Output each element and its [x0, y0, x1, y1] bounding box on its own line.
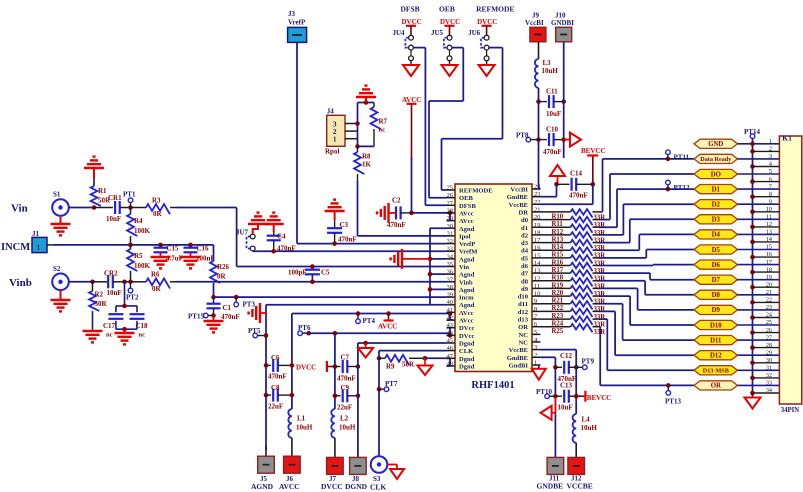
net flag D10	[694, 320, 738, 329]
junction R5/PT2	[128, 280, 133, 285]
svg-text:VrefP: VrefP	[288, 19, 306, 27]
junction C11 right	[561, 99, 566, 104]
resistor R23 33R	[541, 309, 616, 321]
svg-text:C3: C3	[340, 221, 349, 229]
svg-text:VrefP: VrefP	[459, 241, 475, 248]
junction C10 right	[561, 137, 566, 142]
net flag D8	[694, 290, 738, 299]
ground above JU7	[248, 213, 268, 234]
svg-text:5: 5	[769, 168, 772, 175]
svg-text:100K: 100K	[134, 262, 151, 270]
capacitor C16 100nF	[184, 245, 215, 263]
svg-text:AVCC: AVCC	[378, 323, 397, 331]
svg-text:PT6: PT6	[298, 324, 311, 332]
connector J6 (AVCC)	[279, 456, 300, 491]
svg-text:S1: S1	[53, 191, 61, 199]
test point PT13	[665, 383, 681, 405]
svg-text:11: 11	[766, 214, 772, 221]
wire R1 node to CR1	[94, 207, 113, 209]
ground right of S3	[387, 465, 404, 480]
wire REFMODE to IC pin 25	[442, 48, 503, 190]
wire PT1 node to R3	[131, 207, 147, 209]
svg-text:R3: R3	[152, 197, 161, 205]
svg-text:Vin: Vin	[11, 203, 28, 215]
svg-text:1: 1	[534, 360, 537, 367]
net flag D13-MSB	[694, 366, 738, 375]
svg-text:31: 31	[447, 230, 453, 237]
svg-text:K1: K1	[782, 134, 792, 143]
svg-text:OEB: OEB	[439, 5, 455, 14]
svg-text:5: 5	[534, 329, 537, 336]
svg-text:17: 17	[534, 237, 541, 244]
capacitor C7 470nF	[335, 354, 360, 383]
svg-text:18: 18	[534, 229, 540, 236]
svg-text:31: 31	[766, 365, 772, 372]
svg-text:BEVCC: BEVCC	[587, 394, 612, 402]
svg-text:Dgnd: Dgnd	[459, 356, 475, 363]
svg-text:42: 42	[447, 315, 453, 322]
svg-text:R7: R7	[379, 118, 388, 126]
svg-text:470nF: 470nF	[337, 375, 356, 383]
svg-text:AVCC: AVCC	[279, 482, 300, 491]
wire R9 to pins 47/48	[425, 358, 450, 366]
svg-text:20: 20	[766, 281, 772, 288]
svg-text:Data Ready: Data Ready	[700, 156, 732, 163]
ground below C16	[181, 257, 201, 268]
junction C3 on VrefP	[332, 241, 337, 246]
svg-text:29: 29	[447, 215, 453, 222]
op-amp U1 ADC RHF1401	[447, 184, 542, 372]
net flag D12	[694, 351, 738, 360]
svg-text:d4: d4	[521, 248, 529, 255]
svg-text:Agnd: Agnd	[459, 272, 475, 279]
svg-text:d12: d12	[518, 309, 529, 316]
power DVCC (left of C7)	[296, 361, 337, 372]
svg-text:PT4: PT4	[363, 317, 376, 325]
test point PT11	[666, 150, 690, 162]
wire flag D2 to K1	[738, 203, 780, 205]
resistor R21 33R	[541, 293, 631, 305]
svg-text:CLK: CLK	[459, 348, 474, 355]
wire DVcc row to pins 43/44	[309, 328, 453, 338]
svg-text:VccBI: VccBI	[510, 187, 528, 194]
svg-text:nc: nc	[379, 127, 386, 134]
svg-text:D9: D9	[712, 307, 721, 314]
net flag D5	[694, 245, 738, 254]
svg-text:PT11: PT11	[674, 154, 690, 162]
svg-text:DVCC: DVCC	[321, 482, 343, 491]
svg-text:DVCC: DVCC	[296, 364, 316, 372]
junction C16 on INCM	[188, 243, 193, 248]
svg-text:36: 36	[447, 269, 453, 276]
ground below pin45 wire	[358, 343, 373, 358]
svg-text:GND: GND	[708, 141, 723, 148]
BNC connector S1 (Vin input)	[52, 191, 69, 216]
test point PT14	[744, 128, 760, 139]
ground right of C10	[564, 133, 581, 147]
wire J3 to VrefP row	[297, 42, 447, 243]
svg-text:J3: J3	[288, 10, 296, 18]
wire Vin: S1 to R1 node	[69, 207, 94, 209]
svg-text:D8: D8	[712, 292, 721, 299]
svg-text:J4: J4	[327, 108, 335, 116]
inductor L1 10uH	[288, 409, 313, 456]
svg-text:20: 20	[534, 214, 540, 221]
svg-text:C17: C17	[103, 322, 116, 330]
jumper JU5 (OEB)	[431, 5, 463, 77]
svg-text:4: 4	[769, 161, 772, 168]
ground above C3	[325, 200, 345, 220]
svg-text:DO: DO	[711, 171, 721, 178]
svg-text:DVcc: DVcc	[459, 325, 474, 332]
resistor R13 33R	[541, 232, 624, 244]
AVCC rail vertical	[290, 314, 295, 410]
svg-text:0R: 0R	[217, 273, 227, 281]
svg-text:PT9: PT9	[582, 358, 595, 366]
resistor R5 100K	[127, 245, 150, 282]
svg-text:13: 13	[766, 229, 772, 236]
svg-text:PT14: PT14	[744, 128, 760, 136]
svg-text:9: 9	[769, 198, 772, 205]
junction C15 on INCM	[158, 243, 163, 248]
ground left of Agnd bracket	[391, 249, 430, 269]
junction C14 left	[554, 182, 559, 187]
connector J12 (VCCBE)	[567, 457, 593, 490]
wire INCM corner down	[213, 245, 215, 261]
wire DFSB to IC pin 27	[425, 48, 446, 206]
svg-text:100K: 100K	[134, 227, 151, 235]
svg-text:12: 12	[766, 221, 772, 228]
svg-text:C10: C10	[546, 126, 559, 134]
resistor R2 50R	[89, 282, 107, 331]
svg-text:27: 27	[447, 200, 454, 207]
svg-text:4.7uF: 4.7uF	[166, 255, 183, 263]
wire D3 signal to flag	[630, 219, 694, 242]
svg-text:11: 11	[534, 283, 540, 290]
wire Dgnd pin45 to DGND rail	[358, 341, 447, 458]
junction CLK/R9	[377, 356, 382, 361]
svg-text:44: 44	[447, 330, 454, 337]
svg-text:470nF: 470nF	[268, 373, 287, 381]
svg-text:PT5: PT5	[248, 327, 261, 335]
svg-text:C1: C1	[223, 304, 232, 312]
svg-text:Vinb: Vinb	[459, 279, 473, 286]
wire D2 signal to flag	[623, 204, 694, 235]
svg-text:NC: NC	[518, 340, 528, 347]
svg-text:C13: C13	[560, 382, 573, 390]
svg-text:34: 34	[766, 387, 772, 394]
GNDBI rail from J10	[563, 42, 565, 158]
svg-text:32: 32	[766, 372, 772, 379]
wire OR signal to flag	[600, 327, 694, 386]
svg-text:33: 33	[766, 380, 772, 387]
resistor R15 33R	[541, 247, 640, 259]
ground below GND bus	[745, 398, 761, 409]
svg-text:3: 3	[534, 344, 537, 351]
svg-text:R26: R26	[217, 263, 230, 271]
wire D5 signal to flag	[646, 250, 694, 258]
svg-text:14: 14	[534, 260, 541, 267]
junction C11 left	[536, 99, 541, 104]
inductor L2 10uH	[331, 409, 356, 457]
svg-text:AVcc: AVcc	[459, 310, 474, 317]
wire Incm row to IC pin 39	[214, 296, 447, 298]
wire flag D13-MSB to K1	[738, 369, 780, 371]
svg-text:6: 6	[534, 321, 537, 328]
svg-text:S2: S2	[53, 265, 61, 273]
capacitor CR2 10nF	[104, 270, 122, 298]
svg-text:30: 30	[447, 223, 453, 230]
ground above C4	[264, 213, 284, 232]
resistor R7 nc	[371, 103, 388, 147]
svg-text:L3: L3	[543, 59, 552, 67]
svg-text:OEB: OEB	[459, 195, 474, 202]
svg-text:Ipol: Ipol	[459, 233, 471, 240]
wire J4 pin stubs	[345, 124, 358, 139]
jumper JU4 (DFSB)	[393, 5, 426, 77]
svg-text:PT12: PT12	[674, 184, 690, 192]
svg-text:C16: C16	[197, 245, 210, 253]
svg-text:PT3: PT3	[243, 301, 256, 309]
ground above R1	[84, 157, 104, 178]
svg-text:VCCBE: VCCBE	[567, 482, 593, 491]
test point PT8	[516, 132, 539, 142]
connector J3 (VrefP)	[288, 10, 307, 42]
capacitor CR1 10nF	[106, 194, 122, 223]
junction C13 left / PT10	[553, 394, 558, 399]
svg-text:15: 15	[766, 244, 772, 251]
net flag OR	[694, 381, 738, 390]
connector J11 (GNDBE)	[537, 457, 564, 490]
wire flag D6 to K1	[738, 264, 780, 266]
junction pins 28/29 tie	[448, 211, 453, 216]
wire flag D1 to K1	[738, 188, 780, 190]
svg-text:1: 1	[333, 136, 337, 144]
wire flag D12 to K1	[738, 354, 780, 356]
svg-text:GNDBE: GNDBE	[537, 482, 564, 491]
power AVCC (top)	[402, 96, 421, 160]
wire CLK vertical to S3	[378, 358, 380, 456]
wire flag D5 to K1	[738, 249, 780, 251]
svg-text:PT1: PT1	[123, 191, 136, 199]
svg-text:C8: C8	[271, 384, 280, 392]
connector J5 (AGND)	[251, 456, 274, 491]
svg-text:2: 2	[534, 352, 537, 359]
wire Vinb: S2 to R2 node	[69, 281, 93, 283]
svg-text:D7: D7	[712, 277, 721, 284]
wire INCM net	[47, 244, 214, 246]
svg-text:L1: L1	[297, 415, 306, 423]
svg-text:C9: C9	[341, 384, 350, 392]
capacitor C5 100pF	[288, 269, 330, 282]
svg-text:10uH: 10uH	[581, 424, 598, 432]
capacitor C12 470nF	[555, 352, 576, 383]
svg-text:28: 28	[447, 207, 453, 214]
svg-text:46: 46	[447, 345, 453, 352]
svg-text:J1: J1	[32, 230, 40, 238]
svg-text:d7: d7	[521, 271, 529, 278]
jumper JU6 (REFMODE)	[468, 5, 514, 77]
label Vinb	[9, 277, 32, 289]
svg-text:Agnd: Agnd	[459, 226, 475, 233]
svg-text:D3: D3	[712, 217, 721, 224]
svg-text:0R: 0R	[153, 210, 163, 218]
wire Agnd row to IC pin 40	[266, 304, 430, 306]
svg-text:DFSB: DFSB	[401, 5, 420, 14]
svg-text:41: 41	[447, 307, 453, 314]
svg-text:6: 6	[769, 176, 772, 183]
svg-text:C15: C15	[167, 245, 180, 253]
capacitor C10 470nF	[539, 126, 564, 157]
capacitor C8 22uF	[264, 384, 292, 411]
jumper JU7	[236, 229, 255, 251]
svg-text:Vin: Vin	[459, 264, 469, 271]
svg-text:470nF: 470nF	[338, 236, 357, 244]
resistor R8 1K	[354, 146, 371, 236]
svg-text:24: 24	[766, 312, 772, 319]
svg-text:d13: d13	[518, 317, 529, 324]
resistor R14 33R	[541, 240, 630, 252]
power BEVCC (top)	[581, 147, 606, 184]
svg-text:d9: d9	[521, 286, 529, 293]
svg-text:22uF: 22uF	[268, 403, 283, 411]
wire CR1 to PT1 node	[120, 207, 131, 209]
junction C5 bottom	[310, 280, 315, 285]
ground left below PT10	[541, 396, 556, 420]
svg-text:38: 38	[447, 284, 453, 291]
svg-text:Dgnd: Dgnd	[459, 341, 475, 348]
net flag D11	[694, 336, 738, 345]
svg-text:50R: 50R	[95, 300, 108, 308]
svg-text:CLK: CLK	[370, 483, 386, 492]
test point PT1	[123, 191, 136, 208]
svg-text:10uF: 10uF	[558, 404, 573, 412]
svg-text:Agnd: Agnd	[459, 256, 475, 263]
junction node PT1	[128, 205, 133, 210]
svg-text:BEVCC: BEVCC	[581, 147, 606, 155]
wire D10 signal to flag	[630, 296, 694, 325]
resistor R6 0R	[146, 271, 170, 294]
svg-text:26: 26	[447, 192, 453, 199]
wire flag GND to K1	[738, 143, 780, 145]
svg-text:C2: C2	[392, 197, 401, 205]
svg-text:d3: d3	[521, 240, 529, 247]
svg-text:0R: 0R	[152, 285, 162, 293]
test point PT7	[377, 380, 398, 392]
junction C10 left / PT8	[536, 137, 541, 142]
svg-text:nc: nc	[139, 332, 146, 339]
svg-text:R6: R6	[151, 271, 160, 279]
svg-text:R2: R2	[95, 291, 104, 299]
resistor R18 33R	[541, 270, 651, 282]
svg-text:OR: OR	[711, 383, 721, 390]
svg-text:REFMODE: REFMODE	[476, 5, 514, 14]
resistor R25 33R	[541, 324, 606, 336]
resistor R19 33R	[541, 278, 646, 290]
svg-text:43: 43	[447, 322, 453, 329]
svg-text:19: 19	[534, 222, 540, 229]
svg-text:D13-MSB: D13-MSB	[703, 368, 729, 375]
BNC connector S3 (CLK)	[370, 456, 387, 491]
svg-text:Agnd: Agnd	[459, 302, 475, 309]
junction R4/R5 on INCM	[128, 243, 133, 248]
svg-text:9: 9	[534, 298, 537, 305]
svg-text:39: 39	[447, 292, 453, 299]
wire D8 signal to flag	[645, 281, 694, 295]
svg-text:C14: C14	[570, 170, 583, 178]
svg-text:VccBE: VccBE	[509, 347, 529, 354]
svg-text:PT7: PT7	[385, 380, 398, 388]
wire D9 signal to flag	[638, 288, 694, 310]
svg-text:d11: d11	[518, 301, 528, 308]
svg-text:VccBE: VccBE	[509, 202, 529, 209]
label 34PIN	[781, 407, 800, 414]
svg-text:47: 47	[447, 353, 454, 360]
resistor R26 0R	[210, 261, 229, 297]
wire C14 left to pin 23	[541, 184, 557, 196]
AGND rail vertical	[265, 305, 267, 450]
svg-text:PT2: PT2	[126, 294, 139, 302]
wire flag D7 to K1	[738, 279, 780, 281]
net flag GND	[694, 139, 738, 148]
svg-text:NC: NC	[518, 332, 528, 339]
wire Vin vertical jog	[236, 208, 238, 267]
test point PT4	[356, 311, 376, 325]
wire J4 bus vertical	[355, 121, 360, 149]
connector J10 (GNDBI)	[551, 12, 574, 42]
power AVCC (bottom)	[378, 311, 397, 330]
svg-text:D1: D1	[712, 186, 721, 193]
connector J8 (DGND)	[345, 457, 368, 491]
svg-text:CR1: CR1	[108, 194, 122, 202]
ground below pin1 GndBI	[532, 365, 546, 380]
wire D6 signal to flag	[653, 264, 694, 267]
svg-text:8: 8	[534, 306, 537, 313]
junction PT3 on Incm	[234, 295, 239, 300]
wire C17 node to R5 node	[125, 281, 131, 283]
svg-text:L2: L2	[340, 415, 349, 423]
ground below S1	[51, 216, 71, 236]
svg-text:R4: R4	[134, 217, 143, 225]
wire J9 to L3	[538, 42, 540, 59]
capacitor C2 470nF	[387, 197, 412, 230]
svg-text:JU4: JU4	[393, 29, 406, 37]
svg-text:10uH: 10uH	[542, 67, 559, 75]
resistor R12 33R	[541, 224, 618, 236]
svg-text:JU6: JU6	[468, 29, 481, 37]
svg-text:14: 14	[766, 236, 772, 243]
junction C13 right	[574, 394, 579, 399]
svg-text:28: 28	[766, 342, 772, 349]
svg-text:L4: L4	[582, 416, 591, 424]
svg-text:16: 16	[766, 251, 772, 258]
test point PT9	[576, 358, 594, 370]
wire flag D4 to K1	[738, 233, 780, 235]
wire flag D3 to K1	[738, 218, 780, 220]
capacitor C3 470nF	[327, 220, 357, 244]
svg-text:GndBI: GndBI	[509, 363, 529, 370]
label K1	[782, 134, 792, 143]
junction C14 right	[591, 182, 596, 187]
svg-text:GndBE: GndBE	[507, 194, 529, 201]
svg-text:R25: R25	[552, 328, 564, 335]
svg-text:C12: C12	[560, 352, 573, 360]
svg-text:34PIN: 34PIN	[781, 407, 800, 414]
svg-text:100pF: 100pF	[288, 269, 307, 277]
resistor R1 50R	[91, 178, 111, 208]
svg-text:d10: d10	[518, 294, 529, 301]
junction R9/ground	[423, 356, 428, 361]
